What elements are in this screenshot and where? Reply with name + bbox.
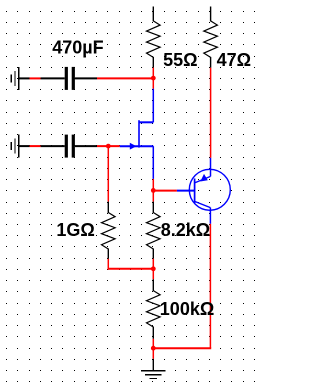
svg-text:8.2kΩ: 8.2kΩ — [161, 220, 210, 240]
ground GND1 — [18, 67, 20, 90]
node A junction dot — [151, 76, 156, 81]
wire node C to R4 (red) — [152, 191, 154, 202]
resistor R1 55Ω — [152, 7, 154, 22]
transistor Q1 JFET — [120, 145, 154, 147]
capacitor C2 — [41, 145, 65, 147]
svg-text:470µF: 470µF — [52, 38, 103, 58]
emitter arrow of Q2 — [200, 174, 208, 182]
ground GND2 — [18, 135, 20, 158]
wire Q1 source to node C (red) — [152, 179, 154, 191]
wire node D to R5 (red) — [152, 269, 154, 280]
wire GND1 to C1 (red) — [30, 77, 41, 79]
capacitor C1 — [41, 77, 65, 79]
transistor Q2 BJT — [189, 169, 230, 210]
svg-text:1GΩ: 1GΩ — [56, 220, 94, 240]
resistor R5 100kΩ — [152, 279, 154, 291]
svg-text:47Ω: 47Ω — [217, 50, 251, 70]
resistor R3 1GΩ — [107, 202, 109, 213]
wire node A to Q1 drain (red) — [152, 78, 154, 88]
wire R5 to bottom node (red) — [152, 339, 154, 348]
wire C2 to Q1 gate (red) — [97, 145, 120, 147]
node B junction dot — [106, 144, 111, 149]
svg-text:100kΩ: 100kΩ — [160, 299, 214, 319]
resistor R4 8.2kΩ — [152, 202, 154, 213]
wire bottom node to GND3 (red) — [152, 348, 154, 359]
gate arrow of Q1 — [130, 143, 137, 150]
wire R4 to node D (red) — [152, 259, 154, 269]
wire R2 to Q2 emitter (red) — [210, 68, 212, 158]
wire R3 to node D (red) — [107, 259, 109, 270]
node C junction dot — [151, 188, 156, 193]
wire node B to R3 (red) — [107, 146, 109, 202]
node D junction dot — [151, 266, 156, 271]
resistor R2 47Ω — [210, 7, 212, 22]
wire R1 to node A (red) — [152, 68, 154, 79]
svg-text:55Ω: 55Ω — [163, 50, 197, 70]
ground GND3 — [152, 359, 154, 371]
wire node C to Q2 base (red) — [153, 190, 177, 192]
wire C1 to node A (red) — [97, 77, 153, 79]
bottom node junction dot — [151, 346, 156, 351]
wire Q2 collector to rail (red) — [209, 224, 211, 348]
wire GND2 to C2 (red) — [30, 145, 41, 147]
